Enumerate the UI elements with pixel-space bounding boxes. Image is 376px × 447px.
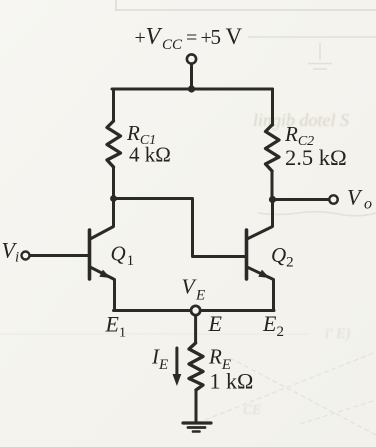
terminal Vo circle (329, 195, 337, 203)
main ink (22, 54, 338, 431)
wire right drop (271, 89, 274, 125)
transistor Q2 base bar (245, 230, 249, 279)
wire output lead (273, 198, 330, 201)
wire Vcc terminal lead (190, 64, 193, 89)
svg-text:E: E (208, 311, 223, 336)
svg-text:E: E (195, 288, 205, 304)
terminal Vcc circle (187, 54, 196, 63)
wire bottom rail (114, 309, 275, 312)
svg-text:+: + (135, 27, 146, 49)
resistor RE zigzag (189, 343, 203, 390)
junction dot collector Q2 (269, 196, 276, 203)
transistor Q1 base bar (88, 230, 92, 279)
svg-text:2.5 kΩ: 2.5 kΩ (285, 145, 347, 170)
ghost line mid (0, 333, 310, 335)
ghost text row (243, 110, 350, 418)
current arrow IE (175, 348, 178, 378)
svg-text:V: V (226, 24, 243, 49)
ghost fragment upper right (308, 43, 332, 69)
svg-text:1 kΩ: 1 kΩ (210, 369, 254, 394)
junction dot collector Q1 (110, 195, 117, 202)
resistor RC1 zigzag (107, 121, 121, 167)
wire RE to ground (195, 390, 198, 422)
ground symbol (183, 421, 211, 424)
wire left drop (112, 89, 115, 121)
ghost rule right of +5V (248, 36, 376, 38)
svg-text:CC: CC (162, 37, 183, 53)
wire RC1 to node (112, 167, 115, 199)
transistor Q2 emitter with arrow (248, 268, 274, 311)
terminal Vi circle (22, 252, 30, 260)
svg-text:o: o (364, 196, 372, 213)
svg-text:i' E): i' E) (325, 326, 350, 342)
ghost diagonals bottom right (205, 352, 376, 435)
wire top bus (112, 88, 273, 91)
junction dot Vcc/bus (188, 85, 195, 92)
ghost rule top (115, 9, 376, 11)
svg-text:CE: CE (243, 403, 261, 418)
svg-text:5: 5 (211, 25, 222, 49)
wire Q1 base lead (30, 254, 89, 257)
wire VE to RE (194, 316, 197, 344)
node VE circle (191, 306, 200, 315)
svg-text:lingib dotel S: lingib dotel S (253, 110, 349, 130)
svg-text:4 kΩ: 4 kΩ (129, 143, 171, 167)
svg-text:=: = (186, 27, 197, 49)
wire Q1 collector (91, 199, 114, 239)
svg-text:V: V (146, 24, 163, 50)
wire cross-coupling to Q2 base (114, 199, 246, 257)
transistor Q1 emitter with arrow (91, 268, 115, 311)
wire RC2 to node (271, 171, 274, 200)
wire Q2 collector (248, 200, 273, 239)
resistor RC2 zigzag (266, 125, 280, 171)
ghost wavy under Vo (258, 212, 376, 216)
